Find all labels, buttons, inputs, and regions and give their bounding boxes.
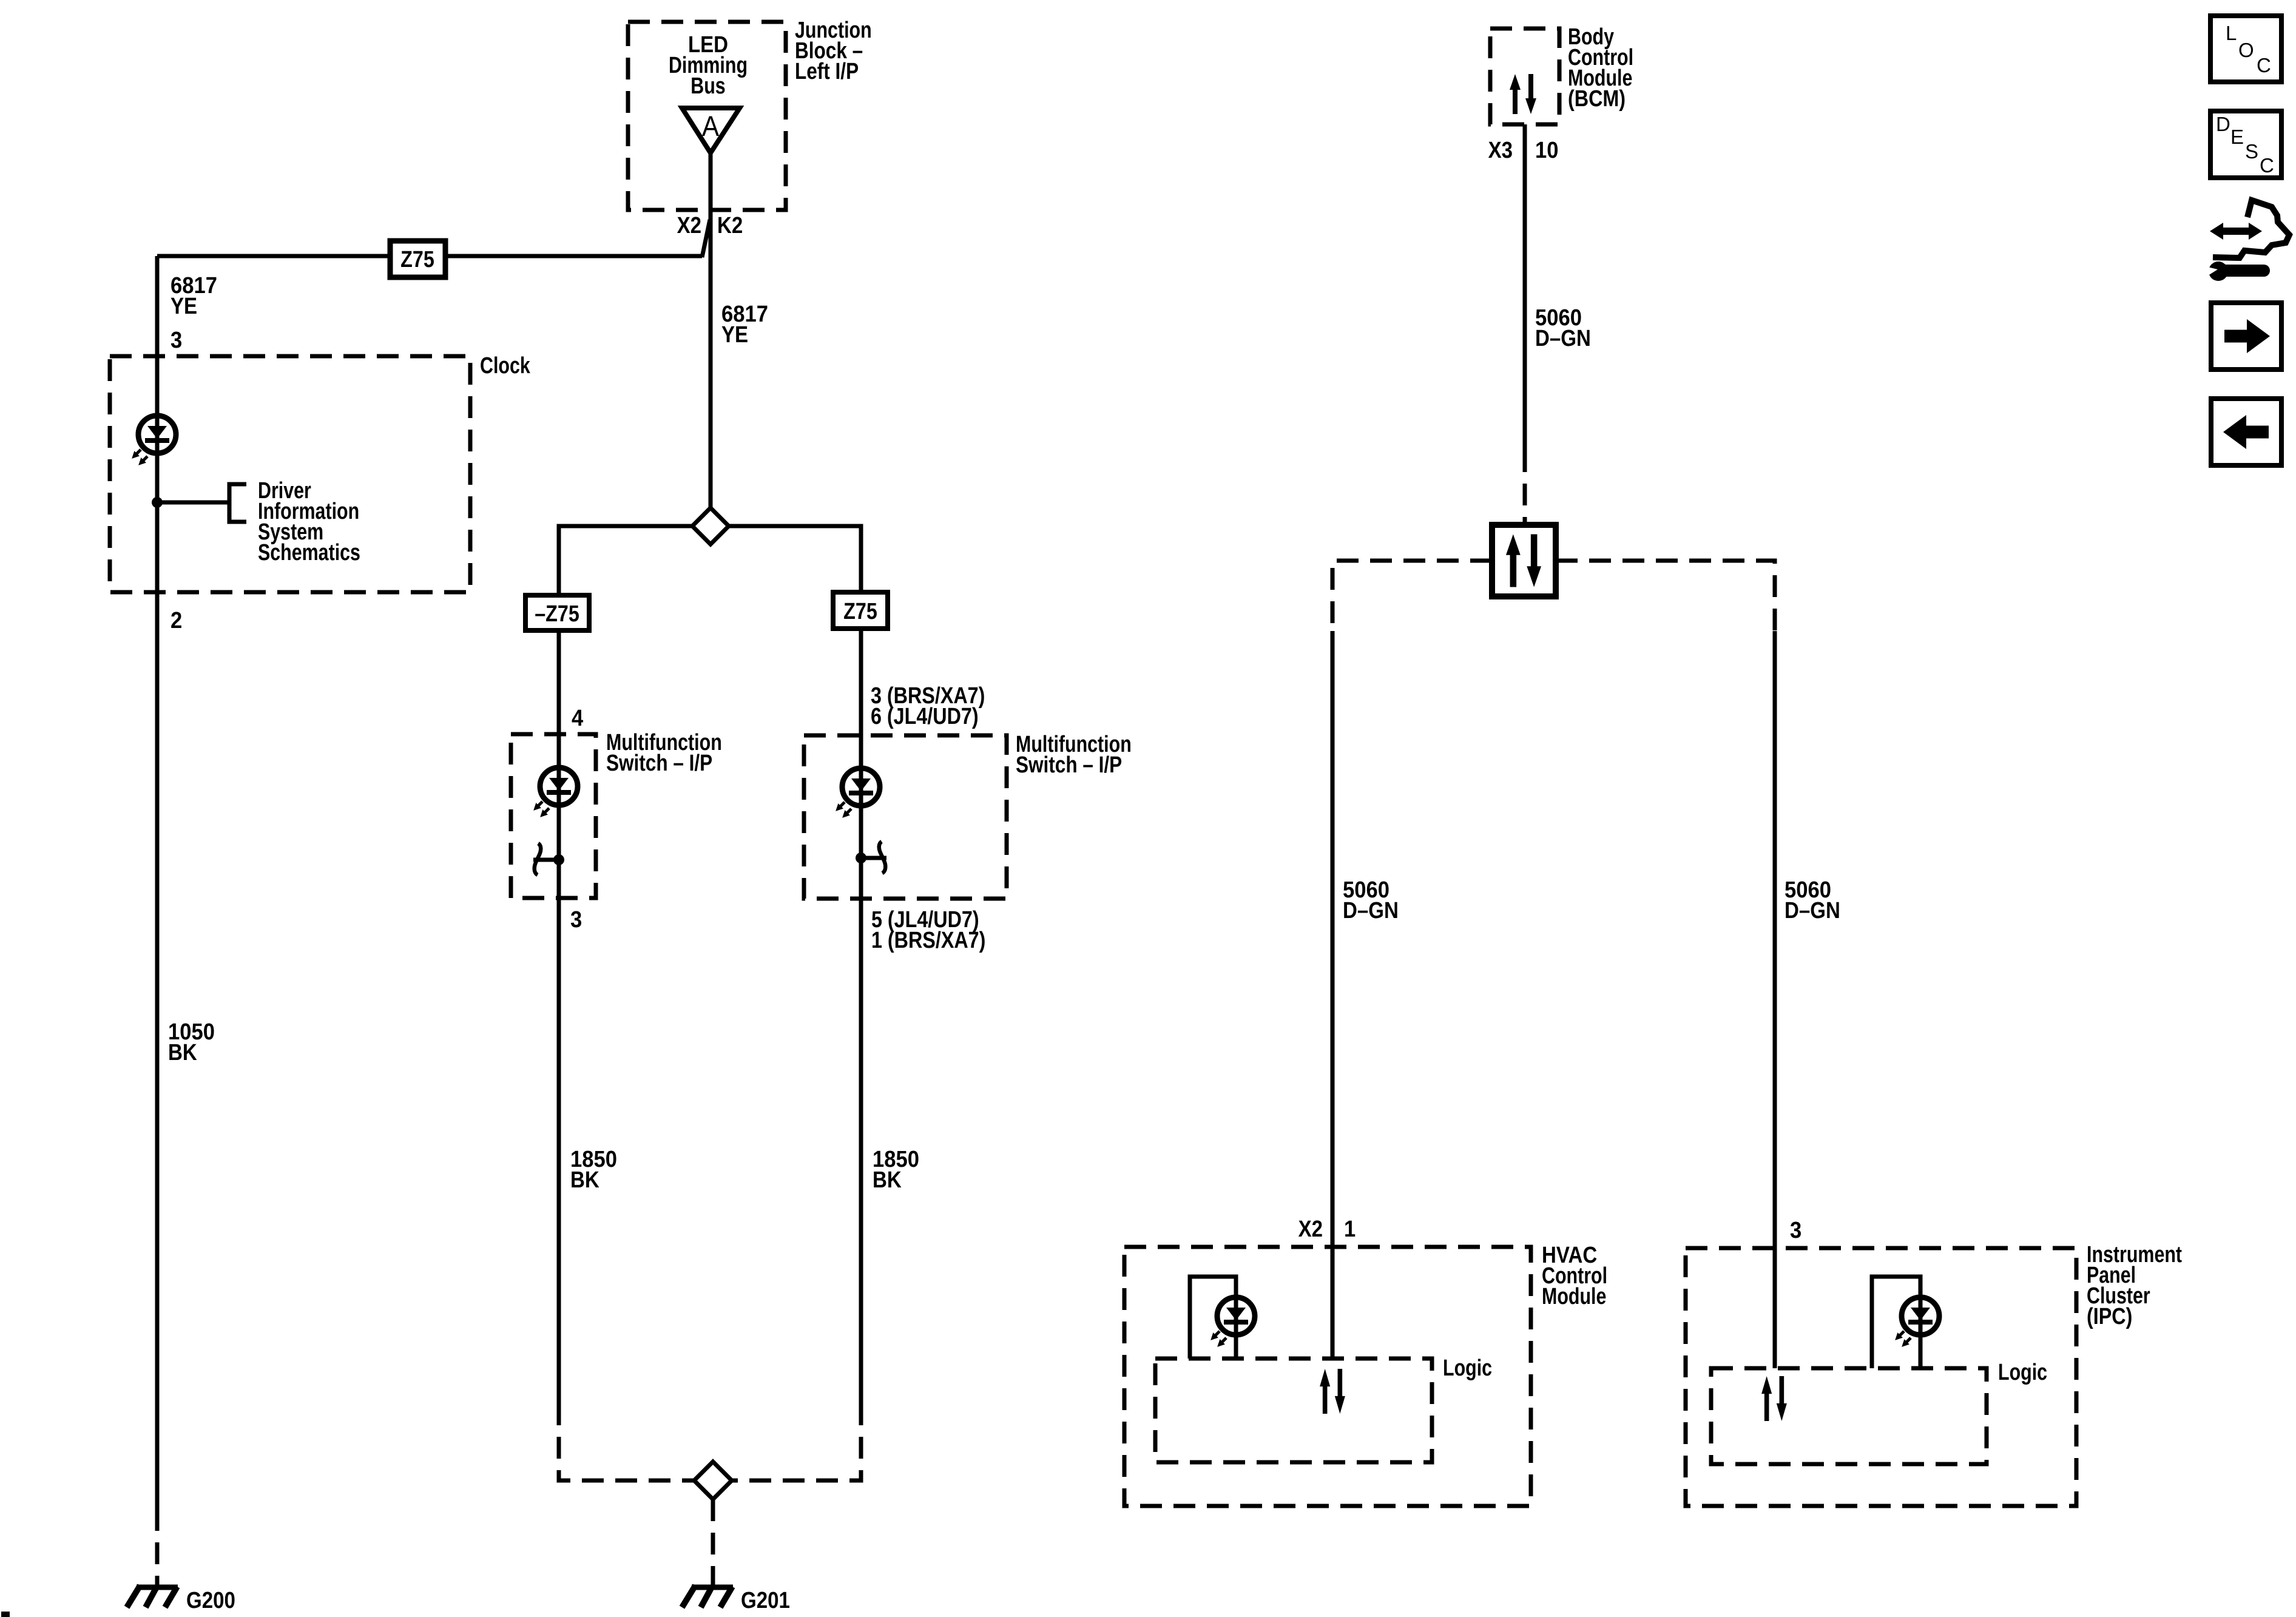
label 1850 BK left: [570, 1146, 617, 1172]
wiring diagnostics icon: [2198, 200, 2289, 281]
dashed wires to bottom splice: [559, 1403, 694, 1480]
pin 4: [572, 704, 584, 731]
multifunction switch right dashed box: [804, 735, 1007, 899]
svg-text:1: 1: [1344, 1215, 1356, 1241]
dashed wire to G201: [711, 1499, 715, 1585]
svg-text:BK: BK: [570, 1167, 599, 1193]
wire right down: [859, 629, 863, 1403]
svg-text:Bus: Bus: [690, 73, 725, 99]
svg-text:Switch – I/P: Switch – I/P: [1016, 752, 1122, 777]
svg-text:C: C: [2260, 154, 2274, 177]
switch contact right: [856, 852, 866, 863]
splice -Z75: [525, 595, 589, 630]
LOC icon: [2210, 16, 2281, 82]
pin labels X2 1: [1298, 1216, 1323, 1242]
label Clock: [480, 353, 531, 379]
label 6817 YE: [171, 272, 217, 298]
next arrow icon: [2211, 303, 2281, 370]
label multifunction left: [606, 730, 722, 755]
dashed wire into connector: [1523, 450, 1527, 525]
wire left branch: [559, 526, 692, 595]
BCM dashed box: [1490, 29, 1559, 124]
logic dashed box IPC: [1711, 1368, 1987, 1464]
svg-text:–Z75: –Z75: [535, 601, 579, 627]
svg-text:10: 10: [1535, 137, 1558, 163]
wire vertical clock: [155, 256, 160, 1509]
BCM arrows: [1510, 74, 1536, 114]
svg-text:1 (BRS/XA7): 1 (BRS/XA7): [871, 928, 985, 953]
dashed split left: [1332, 561, 1492, 631]
junction block dashed box: [628, 22, 786, 210]
dashed split right: [1556, 561, 1775, 631]
svg-text:BK: BK: [168, 1039, 197, 1065]
svg-text:L: L: [2226, 22, 2237, 44]
label Driver Information System Schematics: [258, 478, 311, 504]
svg-text:6 (JL4/UD7): 6 (JL4/UD7): [871, 704, 979, 729]
wire BCM down: [1523, 124, 1527, 450]
label 5060 D-GN: [1535, 304, 1582, 330]
LED loop HVAC: [1190, 1277, 1236, 1359]
splice Z75 right: [833, 592, 888, 629]
label 5060 D-GN left: [1343, 876, 1389, 902]
logic arrows IPC: [1761, 1376, 1787, 1421]
multifunction switch left dashed box: [511, 734, 596, 898]
wire to DIS bracket: [157, 501, 229, 505]
svg-text:3: 3: [570, 906, 582, 932]
pin label 3: [1790, 1217, 1801, 1243]
pin 3 left switch: [570, 906, 582, 932]
IPC dashed box: [1686, 1248, 2076, 1506]
splice Z75 top: [390, 241, 445, 277]
svg-text:D–GN: D–GN: [1535, 325, 1591, 351]
svg-text:BK: BK: [873, 1167, 902, 1193]
label 5060 D-GN right: [1784, 876, 1831, 902]
wire 6817 YE horizontal: [157, 254, 702, 258]
svg-text:Switch – I/P: Switch – I/P: [606, 750, 712, 775]
bus triangle A: [682, 108, 740, 153]
wire right branch: [729, 526, 861, 592]
ground G201: [682, 1585, 733, 1607]
label HVAC: [1542, 1242, 1597, 1268]
svg-text:Module: Module: [1542, 1284, 1606, 1309]
svg-text:D–GN: D–GN: [1343, 897, 1399, 923]
svg-text:C: C: [2257, 54, 2271, 76]
inline connector box: [1492, 525, 1556, 596]
svg-text:YE: YE: [171, 293, 197, 319]
pin 3 clock: [171, 326, 182, 353]
pin labels X3 10: [1488, 137, 1513, 163]
svg-text:X2: X2: [677, 212, 701, 238]
prev arrow icon: [2211, 399, 2281, 465]
pin 2 clock: [171, 607, 182, 633]
svg-text:Logic: Logic: [1998, 1360, 2047, 1385]
HVAC dashed box: [1124, 1247, 1531, 1506]
svg-text:Clock: Clock: [480, 353, 531, 379]
label 1050 BK: [168, 1018, 215, 1044]
svg-text:Logic: Logic: [1443, 1355, 1492, 1381]
LED clock: [129, 416, 176, 468]
svg-text:G200: G200: [186, 1587, 235, 1613]
diagonal kink wire: [702, 220, 710, 257]
label IPC: [2087, 1242, 2183, 1268]
clock dashed box: [110, 356, 470, 592]
svg-text:3: 3: [1790, 1217, 1801, 1243]
junction node: [152, 497, 163, 508]
LED left switch: [531, 768, 578, 820]
label multifunction right: [1016, 732, 1132, 757]
wire from triangle down: [709, 153, 713, 510]
label LED Dimming Bus: [688, 32, 728, 58]
svg-text:Z75: Z75: [400, 247, 434, 272]
wire to HVAC: [1331, 631, 1335, 1359]
bracket: [229, 484, 246, 522]
svg-text:S: S: [2245, 140, 2258, 163]
svg-text:A: A: [702, 111, 719, 143]
logic dashed box HVAC: [1155, 1359, 1432, 1462]
ground G200: [127, 1585, 178, 1607]
LED loop IPC: [1872, 1277, 1920, 1368]
svg-text:O: O: [2238, 39, 2254, 61]
svg-text:4: 4: [572, 704, 584, 731]
wire left down: [557, 630, 561, 1403]
svg-text:E: E: [2230, 126, 2244, 148]
svg-text:X3: X3: [1488, 137, 1513, 163]
DESC icon: [2210, 111, 2281, 178]
page speck: [1, 1612, 10, 1617]
label Junction Block - Left I/P: [795, 18, 872, 43]
wire to IPC: [1773, 631, 1777, 1368]
svg-text:D: D: [2216, 113, 2230, 135]
splice diamond bottom: [694, 1462, 732, 1499]
svg-text:Left I/P: Left I/P: [795, 58, 859, 84]
pin labels right bottom: [871, 907, 979, 933]
svg-text:YE: YE: [721, 322, 748, 348]
pin labels X2 K2: [677, 212, 701, 238]
svg-text:K2: K2: [717, 212, 743, 238]
svg-text:G201: G201: [741, 1587, 790, 1613]
wire dashed to ground: [155, 1509, 160, 1585]
switch contact left: [553, 854, 564, 865]
label 1850 BK right: [873, 1146, 919, 1172]
svg-text:2: 2: [171, 607, 182, 633]
LED right switch: [833, 768, 880, 820]
svg-text:Schematics: Schematics: [258, 540, 360, 565]
pin labels right top: [871, 683, 985, 709]
label BCM: [1568, 24, 1614, 50]
label 6817 YE middle: [721, 300, 768, 326]
splice diamond top: [692, 508, 729, 544]
svg-text:D–GN: D–GN: [1784, 897, 1840, 923]
svg-text:X2: X2: [1298, 1216, 1323, 1242]
svg-text:(IPC): (IPC): [2087, 1304, 2132, 1329]
svg-text:3: 3: [171, 326, 182, 353]
svg-text:Z75: Z75: [843, 599, 877, 624]
logic arrows HVAC: [1320, 1369, 1345, 1414]
svg-text:(BCM): (BCM): [1568, 86, 1626, 112]
